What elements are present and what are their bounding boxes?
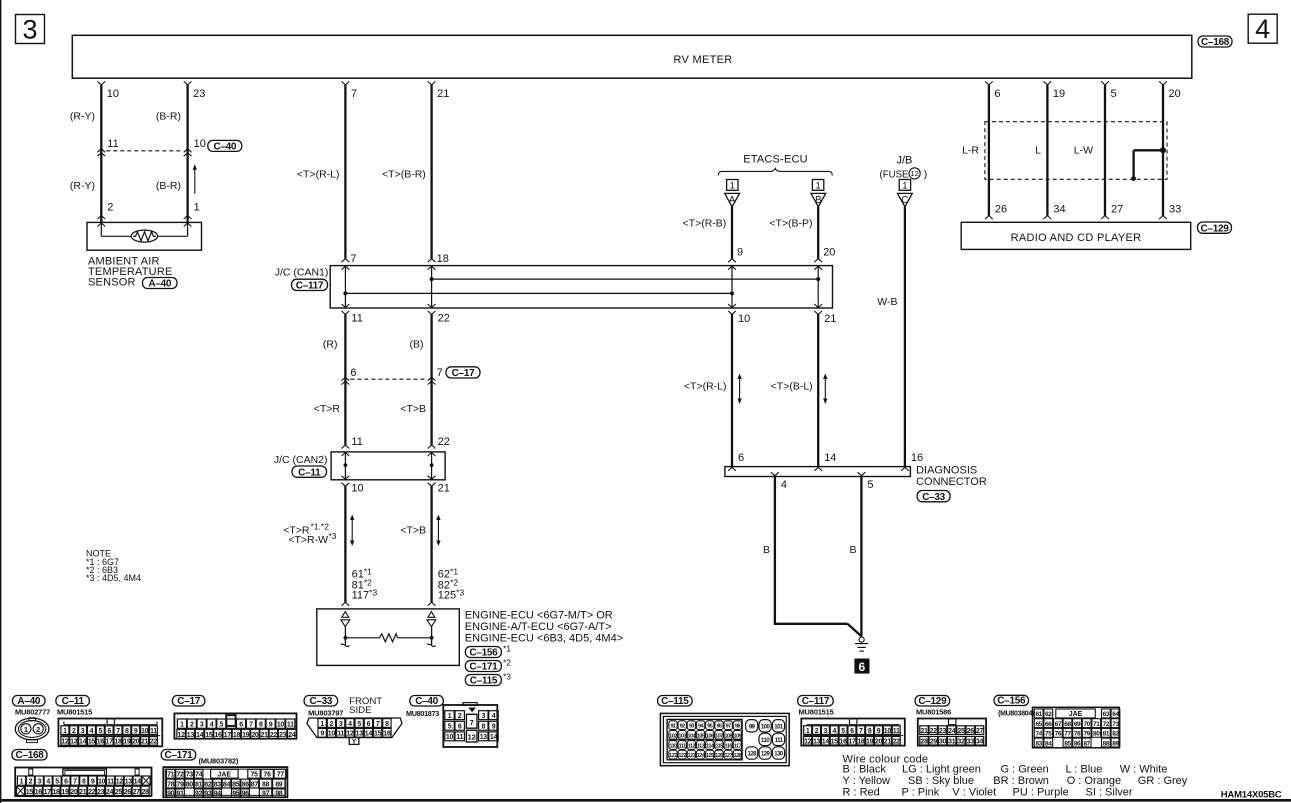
- svg-text:76: 76: [264, 772, 272, 779]
- ETACS terminal B triangle: [811, 193, 826, 206]
- svg-text:26: 26: [995, 204, 1007, 216]
- svg-text:33: 33: [967, 738, 975, 745]
- svg-text:110: 110: [669, 744, 677, 750]
- CAN1 internal wire pin18-22: [431, 266, 433, 308]
- ambient air temperature sensor box: [87, 222, 202, 250]
- svg-text:96: 96: [716, 724, 722, 730]
- svg-text:88: 88: [1103, 740, 1110, 747]
- svg-text:115: 115: [715, 744, 723, 750]
- svg-text:11: 11: [351, 313, 362, 325]
- svg-text:6: 6: [350, 367, 356, 379]
- svg-text:10: 10: [107, 88, 119, 100]
- svg-text:12: 12: [910, 169, 918, 178]
- svg-text:<T>(B-P): <T>(B-P): [769, 218, 812, 230]
- svg-text:21: 21: [79, 789, 87, 796]
- svg-text:2: 2: [29, 779, 33, 786]
- svg-text:6: 6: [994, 88, 1000, 100]
- wire CAN1 pin22 to CAN2 pin22 (B)/<T>B: [430, 314, 432, 445]
- svg-text:RV METER: RV METER: [673, 54, 732, 66]
- svg-text:9: 9: [269, 722, 273, 729]
- svg-text:12: 12: [346, 731, 354, 738]
- svg-text:79: 79: [1083, 731, 1090, 738]
- ground wire from pin4 B: [774, 477, 776, 624]
- svg-text:11: 11: [287, 722, 294, 729]
- svg-text:Y : Yellow: Y : Yellow: [843, 775, 891, 787]
- svg-text:20: 20: [1169, 88, 1181, 100]
- svg-text:18: 18: [857, 738, 865, 745]
- ETACS-ECU brace: [718, 168, 832, 175]
- svg-text:12: 12: [61, 739, 69, 746]
- ground wire diagonal: [848, 624, 862, 637]
- twisted pair arrow diag right: [824, 378, 826, 401]
- svg-text:11: 11: [107, 138, 118, 150]
- svg-text:113: 113: [697, 744, 705, 750]
- svg-text:10: 10: [351, 482, 363, 494]
- svg-text:15: 15: [831, 738, 839, 745]
- svg-text:C–171: C–171: [469, 662, 498, 673]
- svg-text:9: 9: [492, 724, 496, 731]
- engine ECU terminating resistor: [345, 637, 379, 639]
- svg-text:21: 21: [884, 738, 892, 745]
- svg-text:6: 6: [458, 724, 462, 731]
- svg-text:C–168: C–168: [16, 750, 45, 761]
- CAN1 bus line upper: [432, 278, 819, 280]
- svg-text:GR : Grey: GR : Grey: [1138, 775, 1188, 787]
- svg-text:7: 7: [437, 367, 443, 379]
- svg-text:17: 17: [224, 732, 232, 739]
- svg-text:2: 2: [72, 728, 76, 735]
- svg-text:81: 81: [195, 781, 203, 788]
- wire RV pin20 to radio pin33: [1159, 81, 1167, 85]
- wire J/B fuse to diagnosis pin16 W-B: [904, 207, 906, 467]
- svg-text:1: 1: [194, 202, 200, 214]
- svg-text:74: 74: [1035, 731, 1042, 738]
- diagnosis connector box: [725, 467, 911, 477]
- svg-text:(B-R): (B-R): [156, 180, 181, 192]
- svg-text:SENSOR: SENSOR: [88, 277, 136, 289]
- svg-text:2: 2: [107, 202, 113, 214]
- svg-text:4: 4: [90, 728, 94, 735]
- connector label C-40: [208, 140, 242, 151]
- ETACS terminal A pin 1 box: [727, 180, 738, 191]
- svg-text:98: 98: [735, 724, 741, 730]
- svg-text:9: 9: [737, 247, 743, 259]
- svg-text:4: 4: [492, 713, 496, 720]
- svg-text:15: 15: [88, 739, 96, 746]
- svg-text:5: 5: [357, 721, 361, 728]
- svg-text:21: 21: [141, 739, 149, 746]
- svg-text:95: 95: [707, 724, 713, 730]
- C-168 connector face: [15, 768, 151, 797]
- CAN2 internal wire pin11-10: [344, 452, 346, 480]
- svg-text:P : Pink: P : Pink: [902, 787, 940, 799]
- svg-text:C–129: C–129: [918, 696, 947, 707]
- svg-text:18: 18: [52, 789, 60, 796]
- svg-text:C: C: [901, 195, 908, 206]
- svg-text:2: 2: [190, 722, 194, 729]
- svg-text:1: 1: [902, 181, 907, 192]
- svg-text:26: 26: [967, 728, 975, 735]
- svg-text:92: 92: [680, 724, 686, 730]
- svg-text:1: 1: [63, 728, 67, 735]
- svg-text:82: 82: [1112, 731, 1119, 738]
- svg-text:32: 32: [957, 738, 965, 745]
- svg-text:MU803797: MU803797: [308, 708, 343, 717]
- svg-text:97: 97: [726, 724, 732, 730]
- svg-text:A–40: A–40: [17, 696, 40, 707]
- wire ETACS B to J/C CAN1 pin20 <T>(B-P): [817, 207, 819, 259]
- svg-text:6: 6: [850, 728, 854, 735]
- inline connector C-40 dashed link: [106, 150, 182, 152]
- svg-text:11: 11: [107, 779, 114, 786]
- svg-text:C–11: C–11: [62, 696, 85, 707]
- svg-text:RADIO AND CD PLAYER: RADIO AND CD PLAYER: [1011, 232, 1142, 244]
- C-156 connector face: [1033, 707, 1120, 748]
- wire RV pin21 to J/C CAN1 pin18 <T>(B-R): [428, 81, 436, 85]
- svg-text:MU801586: MU801586: [916, 708, 951, 717]
- svg-text:3: 3: [200, 722, 204, 729]
- svg-text:12: 12: [468, 733, 476, 742]
- svg-text:<T>(B-R): <T>(B-R): [382, 169, 426, 181]
- wire ETACS A to J/C CAN1 pin9 <T>(R-B): [731, 207, 733, 259]
- svg-text:8: 8: [385, 721, 389, 728]
- svg-text:83: 83: [214, 781, 222, 788]
- svg-text:5: 5: [220, 722, 224, 729]
- svg-text:7: 7: [470, 718, 474, 727]
- RV METER box: [72, 35, 1192, 78]
- page number 3 box: [16, 15, 45, 44]
- svg-text:11: 11: [351, 436, 362, 448]
- shield dashed box: [985, 122, 1167, 180]
- svg-text:76: 76: [1055, 731, 1062, 738]
- svg-text:116: 116: [725, 744, 733, 750]
- svg-text:9: 9: [134, 728, 138, 735]
- svg-text:ENGINE-ECU <6B3, 4D5, 4M4>: ENGINE-ECU <6B3, 4D5, 4M4>: [465, 633, 623, 645]
- svg-text:*2: *2: [503, 658, 511, 668]
- svg-text:74: 74: [195, 772, 203, 779]
- svg-text:1: 1: [24, 725, 28, 734]
- svg-text:22: 22: [438, 436, 450, 448]
- svg-text:13: 13: [125, 779, 133, 786]
- ground wire from pin5 B: [860, 477, 862, 637]
- svg-text:(R): (R): [323, 338, 338, 350]
- svg-text:*3: *3: [503, 672, 511, 682]
- svg-text:20: 20: [70, 789, 78, 796]
- ground symbol: [859, 637, 864, 642]
- svg-text:22: 22: [438, 313, 450, 325]
- svg-text:<T>R-W: <T>R-W: [288, 534, 328, 546]
- svg-text:72: 72: [1103, 721, 1110, 728]
- svg-text:93: 93: [689, 724, 695, 730]
- svg-text:103: 103: [678, 733, 686, 739]
- svg-text:22: 22: [893, 738, 901, 745]
- svg-text:130: 130: [774, 752, 784, 758]
- svg-text:112: 112: [688, 744, 696, 750]
- svg-text:6: 6: [367, 721, 371, 728]
- svg-text:90: 90: [167, 791, 175, 798]
- svg-text:121: 121: [669, 753, 677, 759]
- wire RV pin10 to sensor pin2 (R-Y): [97, 81, 105, 85]
- svg-text:105: 105: [697, 733, 705, 739]
- svg-text:17: 17: [848, 738, 856, 745]
- svg-text:24: 24: [948, 728, 956, 735]
- svg-text:109: 109: [734, 733, 742, 739]
- svg-text:84: 84: [223, 781, 231, 788]
- svg-text:C–171: C–171: [164, 750, 193, 761]
- svg-text:8: 8: [482, 724, 486, 731]
- engine ECU terminal right: [428, 612, 435, 618]
- CAN1 internal wire pin20-21: [817, 266, 819, 308]
- svg-text:B: B: [849, 544, 856, 556]
- svg-text:4: 4: [832, 728, 836, 735]
- wire RV pin19 to radio pin34 L: [1044, 81, 1052, 85]
- svg-text:11: 11: [337, 731, 344, 738]
- svg-text:17: 17: [44, 789, 52, 796]
- connector pinout C-115 label: [658, 696, 693, 707]
- connector pinout C-156 label: [994, 695, 1029, 705]
- svg-text:SI : Silver: SI : Silver: [1086, 787, 1133, 799]
- harness direction arrow: [194, 168, 196, 193]
- svg-text:W : White: W : White: [1120, 764, 1168, 776]
- svg-text:27: 27: [976, 728, 984, 735]
- svg-text:86: 86: [1074, 740, 1081, 747]
- svg-text:1: 1: [730, 181, 735, 192]
- svg-text:1: 1: [806, 728, 810, 735]
- svg-text:23: 23: [97, 789, 105, 796]
- svg-text:92: 92: [195, 791, 203, 798]
- svg-text:27: 27: [133, 789, 141, 796]
- svg-text:13: 13: [480, 734, 488, 741]
- svg-text:67: 67: [1055, 721, 1062, 728]
- svg-text:1: 1: [180, 722, 184, 729]
- svg-text:21: 21: [438, 482, 450, 494]
- svg-text:14: 14: [490, 734, 498, 741]
- svg-text:27: 27: [1111, 204, 1123, 216]
- svg-text:C–129: C–129: [1201, 223, 1230, 234]
- svg-text:34: 34: [976, 738, 984, 745]
- svg-text:6: 6: [64, 779, 68, 786]
- svg-text:127: 127: [724, 753, 732, 759]
- svg-text:2: 2: [36, 725, 40, 734]
- twisted pair arrow right: [437, 519, 439, 543]
- svg-text:4: 4: [210, 722, 214, 729]
- svg-text:LG : Light green: LG : Light green: [902, 764, 981, 776]
- svg-text:75: 75: [250, 772, 258, 779]
- svg-text:89: 89: [275, 781, 283, 788]
- svg-text:B: B: [763, 544, 770, 556]
- svg-text:C–168: C–168: [1201, 37, 1230, 48]
- svg-text:C–17: C–17: [177, 696, 200, 707]
- svg-text:6: 6: [738, 452, 744, 464]
- svg-text:87: 87: [251, 781, 259, 788]
- engine ECU terminal left: [342, 612, 349, 618]
- svg-text:20: 20: [132, 739, 140, 746]
- shield drain connection: [1134, 149, 1163, 151]
- page number 4 box: [1248, 14, 1277, 43]
- svg-text:64: 64: [1112, 711, 1119, 718]
- svg-text:5: 5: [841, 728, 845, 735]
- svg-text:ENGINE-ECU <6G7-M/T> OR: ENGINE-ECU <6G7-M/T> OR: [465, 610, 613, 622]
- svg-text:1: 1: [20, 779, 24, 786]
- svg-text:3: 3: [339, 721, 343, 728]
- svg-text:SIDE: SIDE: [349, 705, 371, 716]
- svg-text:13: 13: [356, 731, 364, 738]
- svg-text:7: 7: [859, 728, 863, 735]
- svg-text:DIAGNOSIS: DIAGNOSIS: [916, 464, 977, 476]
- svg-text:J/B: J/B: [896, 155, 912, 167]
- connector label C-115 with *3: [465, 675, 501, 686]
- svg-text:C–117: C–117: [296, 281, 324, 292]
- J/B terminal C triangle: [898, 193, 913, 206]
- svg-text:71: 71: [167, 772, 175, 779]
- svg-text:85: 85: [232, 781, 240, 788]
- svg-text:96: 96: [242, 791, 250, 798]
- svg-text:91: 91: [670, 724, 676, 730]
- svg-text:O : Orange: O : Orange: [1067, 775, 1121, 787]
- connector pinout C-17 label: [172, 696, 205, 707]
- svg-text:ETACS-ECU: ETACS-ECU: [743, 154, 808, 166]
- wire RV pin7 to J/C CAN1 pin7 <T>(R-L): [342, 81, 350, 85]
- radio and CD player box: [961, 222, 1190, 249]
- svg-text:18: 18: [114, 739, 122, 746]
- svg-text:19: 19: [123, 739, 131, 746]
- svg-text:128: 128: [747, 752, 757, 758]
- svg-text:ENGINE-A/T-ECU <6G7-A/T>: ENGINE-A/T-ECU <6G7-A/T>: [465, 621, 612, 633]
- svg-text:11: 11: [456, 734, 463, 741]
- connector pinout C-40 label: [410, 696, 444, 707]
- svg-text:Y: Y: [352, 739, 357, 746]
- svg-text:87: 87: [1083, 740, 1090, 747]
- wire CAN1 pin10 to diagnosis pin6 <T>(R-L): [731, 314, 733, 466]
- svg-text:7: 7: [116, 728, 120, 735]
- J/B terminal C pin 1 box: [899, 180, 910, 191]
- A-40 connector face: [15, 718, 49, 740]
- svg-text:10: 10: [194, 138, 206, 150]
- svg-text:*1.*2: *1.*2: [311, 522, 330, 532]
- svg-text:C–40: C–40: [415, 696, 438, 707]
- svg-text:77: 77: [277, 772, 285, 779]
- svg-text:J/C (CAN1): J/C (CAN1): [275, 267, 329, 279]
- svg-text:(MU803804): (MU803804): [998, 711, 1034, 718]
- CAN1 bus line lower: [345, 292, 732, 294]
- svg-text:22: 22: [150, 739, 158, 746]
- svg-text:66: 66: [1045, 721, 1052, 728]
- svg-text:7: 7: [73, 779, 77, 786]
- connector label A-40: [143, 278, 178, 289]
- svg-text:C–11: C–11: [298, 467, 321, 478]
- svg-text:16: 16: [840, 738, 848, 745]
- svg-text:JAE: JAE: [217, 772, 231, 779]
- svg-text:23: 23: [193, 88, 205, 100]
- svg-text:13: 13: [70, 739, 78, 746]
- svg-text:C–17: C–17: [452, 368, 475, 379]
- svg-text:14: 14: [134, 779, 142, 786]
- svg-text:23: 23: [279, 732, 287, 739]
- svg-text:3: 3: [81, 728, 85, 735]
- svg-text:107: 107: [715, 733, 723, 739]
- svg-text:10: 10: [98, 779, 106, 786]
- svg-text:J/C (CAN2): J/C (CAN2): [274, 454, 328, 466]
- svg-text:78: 78: [167, 781, 175, 788]
- svg-text:84: 84: [1045, 740, 1052, 747]
- svg-text:(FUSE: (FUSE: [880, 168, 909, 180]
- svg-text:C–115: C–115: [470, 676, 498, 687]
- svg-text:B: B: [815, 195, 822, 206]
- svg-text:<T>B: <T>B: [400, 525, 426, 537]
- svg-text:30: 30: [939, 738, 947, 745]
- svg-text:C–33: C–33: [922, 492, 945, 503]
- svg-text:20: 20: [251, 732, 259, 739]
- svg-text:72: 72: [176, 772, 184, 779]
- svg-text:129: 129: [761, 752, 771, 758]
- svg-text:122: 122: [678, 753, 686, 759]
- svg-text:<T>(R-L): <T>(R-L): [297, 169, 340, 181]
- svg-text:117: 117: [734, 744, 742, 750]
- svg-text:5: 5: [1111, 88, 1117, 100]
- svg-text:<T>B: <T>B: [400, 403, 426, 415]
- svg-text:31: 31: [948, 738, 956, 745]
- svg-text:7: 7: [249, 722, 253, 729]
- svg-text:19: 19: [61, 789, 69, 796]
- svg-text:34: 34: [1053, 204, 1065, 216]
- svg-text:29: 29: [930, 738, 938, 745]
- svg-text:80: 80: [186, 781, 194, 788]
- svg-text:20: 20: [875, 738, 883, 745]
- svg-text:110: 110: [761, 738, 770, 744]
- thermistor element: [131, 230, 157, 242]
- svg-text:<T>(R-L): <T>(R-L): [684, 381, 727, 393]
- svg-text:L : Blue: L : Blue: [1066, 764, 1103, 776]
- svg-text:111: 111: [679, 744, 687, 750]
- svg-text:C–40: C–40: [213, 141, 236, 152]
- connector pinout C-168 label: [12, 750, 47, 761]
- svg-text:5: 5: [448, 724, 452, 731]
- svg-text:15: 15: [374, 731, 382, 738]
- svg-text:88: 88: [262, 781, 270, 788]
- svg-text:14: 14: [79, 739, 87, 746]
- ETACS terminal B pin 1 box: [812, 180, 823, 191]
- svg-text:75: 75: [1045, 731, 1052, 738]
- svg-text:21: 21: [437, 88, 449, 100]
- svg-text:65: 65: [1035, 721, 1042, 728]
- J/C CAN2 box: [331, 452, 445, 480]
- svg-text:14: 14: [822, 738, 830, 745]
- svg-text:21: 21: [824, 313, 836, 325]
- CAN1 internal wire pin7-11: [344, 266, 346, 308]
- svg-text:19: 19: [242, 732, 250, 739]
- wire CAN1 pin11 to CAN2 pin11 (R)/<T>R: [344, 314, 346, 445]
- CAN2 internal wire pin22-21: [431, 452, 433, 480]
- connector pinout C-11 label: [56, 696, 90, 707]
- engine ECU box: [317, 609, 460, 666]
- svg-text:(MU803782): (MU803782): [199, 756, 239, 765]
- svg-text:14: 14: [196, 732, 204, 739]
- page border bottom: [0, 799, 1291, 802]
- page border left: [0, 0, 2, 803]
- svg-text:4: 4: [46, 779, 50, 786]
- svg-text:71: 71: [1093, 721, 1100, 728]
- svg-text:BR : Brown: BR : Brown: [993, 775, 1049, 787]
- svg-text:69: 69: [1074, 721, 1081, 728]
- svg-text:25: 25: [957, 728, 965, 735]
- svg-text:22: 22: [270, 732, 278, 739]
- svg-text:1: 1: [815, 181, 820, 192]
- svg-text:100: 100: [761, 725, 771, 731]
- svg-text:111: 111: [775, 738, 784, 744]
- svg-text:10: 10: [277, 722, 285, 729]
- svg-text:70: 70: [1083, 721, 1090, 728]
- svg-text:7: 7: [376, 721, 380, 728]
